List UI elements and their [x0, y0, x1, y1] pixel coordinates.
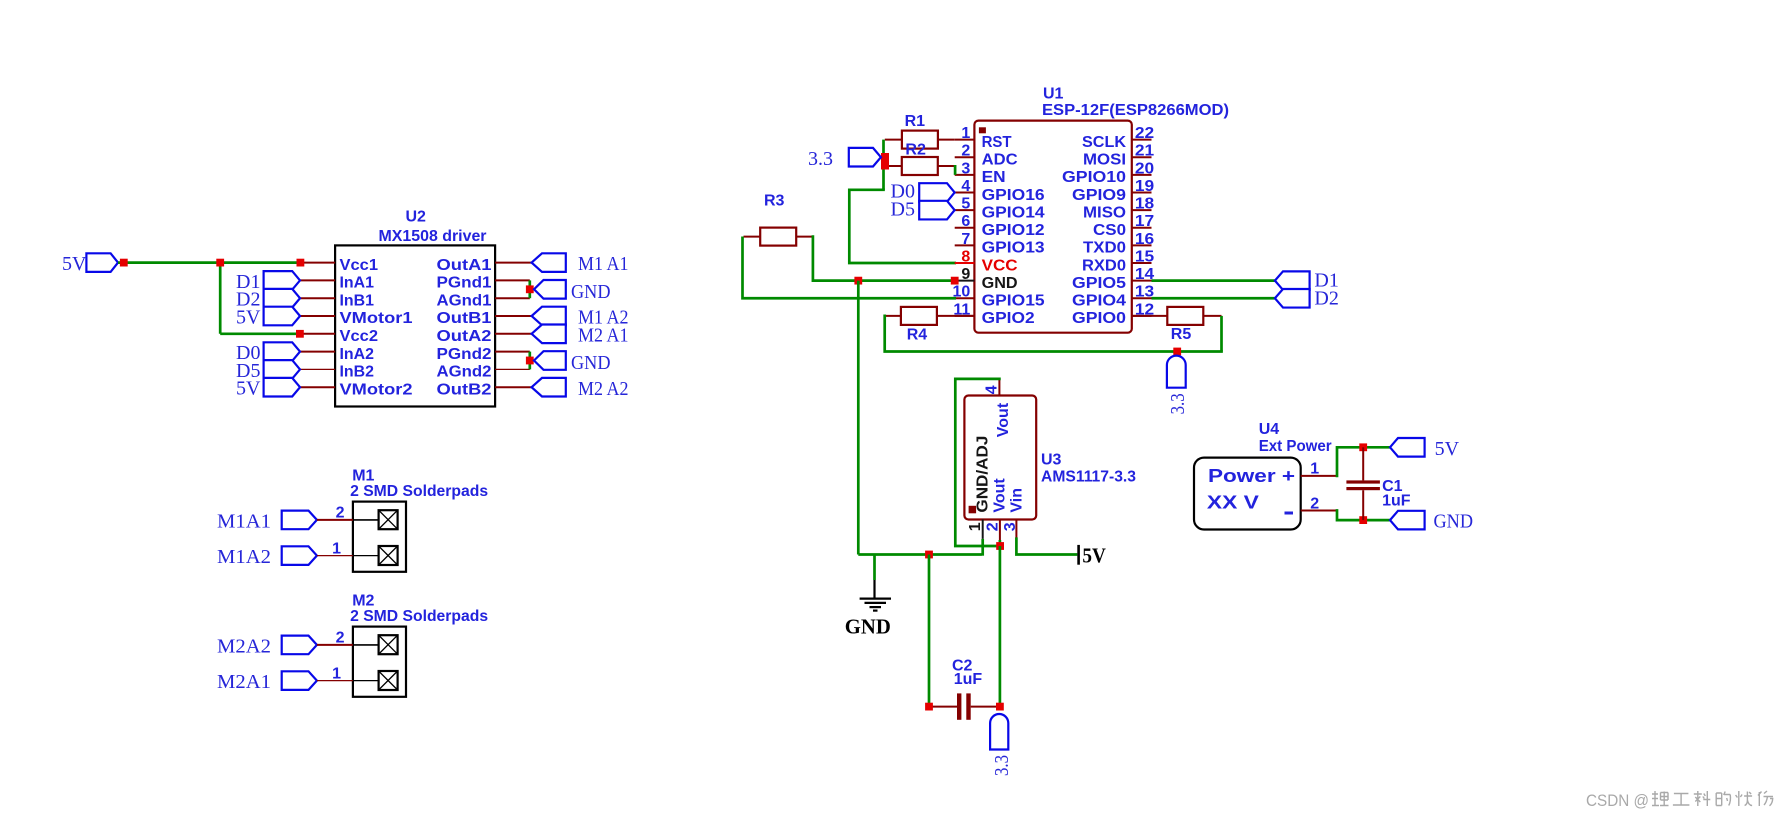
- U1 right pin stub 17: [1132, 227, 1152, 229]
- svg-text:U1: U1: [1043, 86, 1064, 103]
- wire Vout loop pin4 to pin2: [955, 379, 999, 546]
- svg-text:GPIO12: GPIO12: [982, 222, 1045, 239]
- svg-text:2: 2: [336, 505, 345, 522]
- svg-text:GND: GND: [1434, 511, 1474, 533]
- U1 left pin stub 5: [955, 209, 975, 211]
- capacitor C2 plates: [957, 693, 961, 719]
- wire inside M2 pad1: [353, 680, 379, 682]
- wire R1 left: [885, 139, 902, 141]
- wire R2 left: [887, 165, 902, 167]
- wire GND net vertical down: [857, 281, 860, 555]
- U1 right pin stub 14: [1132, 280, 1152, 282]
- svg-text:R4: R4: [907, 327, 928, 344]
- svg-text:1: 1: [961, 125, 970, 142]
- M2 pad 2 (bottom): [379, 671, 398, 690]
- svg-text:1: 1: [332, 540, 341, 557]
- U2 left pin stub row 8: [300, 386, 335, 388]
- svg-text:7: 7: [961, 231, 970, 248]
- svg-text:D5: D5: [891, 198, 915, 220]
- junction C2 right: [996, 703, 1004, 711]
- wire 3.3 net vertical at R1/R2: [882, 140, 885, 190]
- U1 left pin stub 9: [955, 280, 975, 282]
- svg-text:2 SMD Solderpads: 2 SMD Solderpads: [350, 483, 488, 500]
- svg-text:6: 6: [961, 213, 970, 230]
- U2 right pin stub row 5: [495, 333, 531, 335]
- wire GND horizontal to pin1: [858, 553, 981, 556]
- junction at Vcc1 pin: [297, 259, 305, 267]
- svg-text:3: 3: [961, 160, 970, 177]
- U1 right pin stub 15: [1132, 262, 1152, 264]
- U1 left pin stub 7: [955, 244, 975, 246]
- U1 left pin stub 1: [955, 139, 975, 141]
- U1 right pin stub 16: [1132, 244, 1152, 246]
- svg-text:R5: R5: [1171, 326, 1192, 343]
- svg-text:1: 1: [967, 522, 984, 531]
- svg-text:21: 21: [1135, 143, 1154, 160]
- net flag M2A1: [282, 671, 317, 690]
- ground symbol bars: [860, 597, 891, 599]
- net flag M2 A2: [532, 378, 566, 397]
- net flag GND (U2 upper): [534, 280, 566, 299]
- svg-text:Ext Power: Ext Power: [1259, 438, 1332, 455]
- wire pin2 down to GND: [1337, 511, 1390, 521]
- connector U4 Ext Power body: [1194, 458, 1301, 530]
- svg-text:3.3: 3.3: [1167, 393, 1189, 414]
- svg-text:Vout: Vout: [992, 478, 1009, 513]
- svg-text:M2A2: M2A2: [217, 636, 271, 658]
- svg-text:GPIO10: GPIO10: [1062, 169, 1126, 186]
- svg-text:MISO: MISO: [1083, 204, 1126, 221]
- net flag 5V at U2: [264, 307, 300, 326]
- svg-text:GPIO13: GPIO13: [982, 240, 1045, 257]
- svg-text:M1A1: M1A1: [217, 511, 271, 533]
- junction Vout/3.3 under U3: [996, 542, 1004, 550]
- wire 5V net horizontal to Vcc2: [220, 332, 300, 335]
- svg-text:GND: GND: [571, 281, 611, 303]
- svg-text:2 SMD Solderpads: 2 SMD Solderpads: [350, 608, 488, 625]
- junction C1 top: [1359, 443, 1367, 451]
- wire inside M1 pad2: [353, 519, 379, 521]
- svg-text:GPIO2: GPIO2: [982, 310, 1035, 327]
- wire pin3 to 5V probe: [1016, 539, 1076, 555]
- svg-text:ADC: ADC: [982, 152, 1018, 169]
- U2 left pin stub row 6: [300, 351, 335, 353]
- U1 right pin stub 12: [1132, 315, 1152, 317]
- junction C1 bottom: [1359, 516, 1367, 524]
- svg-text:PGnd2: PGnd2: [437, 346, 492, 363]
- wire M2A1 to M2 (thin): [317, 680, 353, 682]
- U1 left pin stub 10: [955, 297, 975, 299]
- svg-text:GPIO5: GPIO5: [1072, 275, 1126, 292]
- resistor R1: [902, 131, 938, 149]
- watermark hanzi strokes: [1652, 791, 1773, 806]
- U1 right pin stub 19: [1132, 191, 1152, 193]
- junction at Vcc2 pin: [296, 330, 304, 338]
- net flag M2A2: [282, 636, 317, 655]
- svg-text:22: 22: [1135, 125, 1154, 142]
- svg-text:M2 A2: M2 A2: [578, 378, 629, 400]
- svg-text:R1: R1: [905, 113, 926, 130]
- svg-text:3.3: 3.3: [808, 148, 833, 170]
- svg-text:Vout: Vout: [995, 402, 1012, 437]
- svg-text:M2 A1: M2 A1: [578, 324, 629, 346]
- U2 left pin stub row 4: [300, 315, 335, 317]
- U2 right pin stub row 4: [495, 315, 531, 317]
- svg-text:GPIO16: GPIO16: [982, 187, 1045, 204]
- net flag GND (U2 lower): [534, 351, 566, 370]
- net flag GND at U4: [1390, 511, 1425, 530]
- 5V probe bar: [1077, 545, 1080, 565]
- svg-text:OutB2: OutB2: [437, 381, 492, 398]
- net flag 5V (top left): [86, 253, 118, 272]
- svg-text:1uF: 1uF: [1382, 492, 1411, 509]
- wire GND PGnd2-AGnd2 vertical: [528, 352, 531, 370]
- svg-text:GND/ADJ: GND/ADJ: [975, 436, 992, 513]
- svg-text:Vcc2: Vcc2: [340, 328, 379, 345]
- svg-text:GPIO14: GPIO14: [982, 204, 1045, 221]
- svg-text:5V: 5V: [236, 306, 261, 328]
- connector M1 2 SMD Solderpads body: [353, 502, 406, 572]
- net flag D5 at U2: [264, 360, 300, 379]
- junction GND at C2 branch: [925, 551, 933, 559]
- U1 left pin stub 11: [955, 315, 975, 317]
- junction GND2: [526, 357, 534, 365]
- svg-text:M1A2: M1A2: [217, 546, 271, 568]
- svg-text:4: 4: [984, 385, 1001, 394]
- resistor R2: [902, 157, 938, 175]
- U4 pin 1 wire: [1301, 475, 1337, 477]
- wire GPIO4 to D2: [1152, 297, 1275, 300]
- wire GND PGnd1-AGnd1 vertical: [528, 280, 531, 298]
- net flag 5V at U2: [264, 378, 300, 397]
- U2 left pin stub row 2: [300, 279, 335, 281]
- U2 right pin stub row 1: [495, 262, 531, 264]
- wire C1 bottom: [1362, 490, 1364, 520]
- svg-text:OutA1: OutA1: [437, 257, 492, 274]
- U3 pin 2 stub: [999, 520, 1001, 541]
- U2 right pin stub row 3: [495, 297, 530, 299]
- svg-text:5V: 5V: [236, 378, 261, 400]
- svg-text:16: 16: [1135, 231, 1154, 248]
- wire R3 left down to GPIO15 net: [744, 236, 761, 238]
- net flag D0 at GPIO16: [919, 183, 954, 202]
- junction 3.3 under R5: [1173, 348, 1181, 356]
- net flag D1: [1275, 271, 1310, 290]
- wire R3 right down to GND net: [796, 236, 813, 238]
- svg-text:CSDN @: CSDN @: [1586, 791, 1649, 810]
- net flag 3.3 (top): [849, 148, 881, 167]
- wire R1 right to RST: [938, 139, 955, 141]
- wire pin1 up to 5V: [1337, 447, 1390, 476]
- svg-text:TXD0: TXD0: [1083, 240, 1126, 257]
- wire 3.3 down to C2: [999, 546, 1002, 707]
- net flag M1A2: [282, 546, 317, 565]
- svg-text:RXD0: RXD0: [1082, 257, 1126, 274]
- svg-text:Power +: Power +: [1208, 466, 1295, 486]
- wire GPIO5 to D1: [1152, 279, 1275, 282]
- net flag D2 at U2: [264, 289, 300, 308]
- resistor R5: [1167, 307, 1203, 325]
- svg-text:15: 15: [1135, 248, 1154, 265]
- svg-text:13: 13: [1135, 284, 1154, 301]
- svg-text:4: 4: [961, 178, 970, 195]
- svg-text:19: 19: [1135, 178, 1154, 195]
- svg-text:R3: R3: [764, 193, 785, 210]
- ground symbol stem: [873, 555, 876, 581]
- svg-text:GPIO0: GPIO0: [1072, 310, 1126, 327]
- svg-text:Vcc1: Vcc1: [340, 257, 379, 274]
- svg-text:U4: U4: [1259, 421, 1280, 438]
- junction GND at pin 9: [951, 277, 959, 285]
- svg-text:5V: 5V: [1435, 438, 1460, 460]
- U4 minus sign: [1285, 512, 1294, 515]
- svg-text:R2: R2: [905, 141, 926, 158]
- svg-text:ESP-12F(ESP8266MOD): ESP-12F(ESP8266MOD): [1042, 102, 1229, 119]
- svg-text:GPIO15: GPIO15: [982, 293, 1045, 310]
- svg-text:InB2: InB2: [340, 364, 375, 381]
- U1 left pin stub 8: [955, 262, 975, 264]
- IC U1 ESP-12F body: [974, 121, 1131, 333]
- net flag D1 at U2: [264, 271, 300, 290]
- U4 pin 2 wire: [1301, 510, 1337, 512]
- net flag 3.3 below C2: [990, 714, 1008, 750]
- svg-text:MOSI: MOSI: [1083, 152, 1126, 169]
- U1 right pin stub 21: [1132, 156, 1152, 158]
- svg-text:1uF: 1uF: [954, 671, 983, 688]
- junction bar 3.3 flag to R2: [881, 153, 889, 170]
- wire C2 left branch down: [928, 555, 931, 707]
- M2 pad 1 (top): [379, 635, 398, 654]
- net flag M2 A1: [532, 325, 566, 344]
- connector M2 2 SMD Solderpads body: [353, 627, 406, 697]
- wire R5 left to GPIO0: [1132, 315, 1168, 317]
- U2 left pin stub row 7: [300, 368, 335, 370]
- svg-text:OutA2: OutA2: [437, 328, 492, 345]
- U1 left pin stub 3: [955, 174, 975, 176]
- U3 pin 1 stub black: [982, 520, 984, 539]
- wire inside M2 pad2: [353, 644, 379, 646]
- U1 right pin stub 20: [1132, 174, 1152, 176]
- wire C2 right: [971, 706, 1000, 708]
- svg-text:InA1: InA1: [340, 275, 375, 292]
- svg-text:SCLK: SCLK: [1082, 134, 1126, 151]
- U3 pin 3 stub: [1015, 520, 1017, 539]
- svg-text:1: 1: [332, 665, 341, 682]
- wire 3.3 net to VCC pin: [849, 190, 954, 263]
- IC U2 MX1508 driver body: [335, 245, 495, 406]
- U2 right pin stub row 8: [495, 386, 531, 388]
- U1 left pin stub 6: [955, 227, 975, 229]
- svg-text:5V: 5V: [62, 253, 87, 275]
- U3 pin 4 stub: [998, 379, 1000, 396]
- wire R5 right down: [1203, 315, 1221, 317]
- svg-text:VMotor2: VMotor2: [340, 381, 413, 398]
- wire M1A2 to M1 (thin): [317, 555, 353, 557]
- svg-text:20: 20: [1135, 160, 1154, 177]
- net flag 5V at U4: [1390, 438, 1425, 457]
- capacitor C1 plates: [1346, 480, 1380, 483]
- svg-text:GPIO4: GPIO4: [1072, 293, 1126, 310]
- wire R4 left loop to R5: [885, 315, 901, 317]
- wire pin2 to junction: [999, 540, 1002, 546]
- svg-text:MX1508 driver: MX1508 driver: [379, 228, 487, 245]
- svg-text:D2: D2: [1314, 287, 1338, 309]
- U1 left pin stub 4: [955, 191, 975, 193]
- U2 left pin stub row 3: [300, 297, 335, 299]
- resistor R3: [760, 228, 796, 246]
- svg-text:GND: GND: [571, 352, 611, 374]
- net flag D5 at GPIO14: [919, 201, 954, 220]
- svg-text:OutB1: OutB1: [437, 310, 492, 327]
- U1 right pin stub 18: [1132, 209, 1152, 211]
- VCC pin stub red: [955, 262, 975, 264]
- net flag 3.3 under R5: [1167, 356, 1186, 388]
- svg-text:AMS1117-3.3: AMS1117-3.3: [1041, 469, 1136, 486]
- net flag D0 at U2: [264, 342, 300, 361]
- U2 right pin stub row 6: [495, 351, 530, 353]
- junction C2 left: [925, 703, 933, 711]
- svg-text:17: 17: [1135, 213, 1154, 230]
- svg-text:RST: RST: [982, 134, 1012, 151]
- svg-text:Vin: Vin: [1009, 488, 1026, 513]
- svg-text:AGnd1: AGnd1: [437, 292, 492, 309]
- svg-text:U3: U3: [1041, 452, 1062, 469]
- U1 pin1 marker: [979, 127, 986, 133]
- junction on 5V branch: [216, 259, 224, 267]
- wire M1A1 to M1: [317, 519, 353, 521]
- svg-text:2: 2: [336, 630, 345, 647]
- net flag M1A1: [282, 511, 317, 530]
- wire C1 top: [1362, 447, 1364, 480]
- wire R4 right to GPIO2: [937, 315, 975, 317]
- U2 right pin stub row 2: [495, 279, 530, 281]
- svg-text:AGnd2: AGnd2: [437, 364, 492, 381]
- wire 5V net vertical branch: [219, 263, 222, 334]
- net flag D2: [1275, 289, 1310, 308]
- svg-text:M2A1: M2A1: [217, 671, 271, 693]
- net flag M1 A2: [532, 307, 566, 326]
- U3 pin1 marker: [969, 506, 977, 514]
- wire pin1 down green: [981, 539, 984, 556]
- svg-text:14: 14: [1135, 266, 1154, 283]
- svg-text:XX V: XX V: [1207, 493, 1259, 513]
- U1 right pin stub 13: [1132, 297, 1152, 299]
- svg-text:CS0: CS0: [1093, 222, 1126, 239]
- M1 pad 1 (top): [379, 510, 398, 529]
- svg-text:InB1: InB1: [340, 292, 375, 309]
- svg-text:5: 5: [961, 196, 970, 213]
- svg-text:GPIO9: GPIO9: [1072, 187, 1126, 204]
- svg-text:VCC: VCC: [982, 257, 1018, 274]
- svg-text:3.3: 3.3: [991, 755, 1013, 776]
- wire M2A2 to M2: [317, 644, 353, 646]
- svg-text:VMotor1: VMotor1: [340, 310, 413, 327]
- svg-text:U2: U2: [406, 209, 427, 226]
- svg-text:M1 A1: M1 A1: [578, 253, 629, 275]
- M1 pad 2 (bottom): [379, 546, 398, 565]
- svg-text:18: 18: [1135, 196, 1154, 213]
- wire R2 right jog to EN: [938, 165, 955, 167]
- junction GND1: [526, 285, 534, 293]
- regulator U3 AMS1117-3.3 body: [964, 396, 1036, 520]
- svg-text:GND: GND: [982, 275, 1018, 292]
- U1 left pin stub 2: [955, 156, 975, 158]
- junction on 5V at flag: [120, 259, 128, 267]
- junction GND net near U1: [854, 277, 862, 285]
- net flag M1 A1: [532, 253, 566, 272]
- U2 left pin stub row 5: [300, 333, 335, 335]
- svg-text:PGnd1: PGnd1: [437, 275, 492, 292]
- svg-text:EN: EN: [982, 169, 1006, 186]
- svg-text:2: 2: [961, 143, 970, 160]
- U1 right pin stub 22: [1132, 139, 1152, 141]
- resistor R4: [901, 307, 937, 325]
- svg-text:9: 9: [961, 266, 970, 283]
- U2 left pin stub row 1: [300, 262, 335, 264]
- wire inside M1 pad1: [353, 555, 379, 557]
- wire 5V net horizontal to Vcc1: [118, 261, 300, 264]
- svg-text:InA2: InA2: [340, 346, 375, 363]
- U2 right pin stub row 7: [495, 368, 530, 370]
- wire C2 left: [929, 706, 957, 708]
- svg-text:GND: GND: [845, 615, 891, 639]
- svg-text:5V: 5V: [1082, 544, 1106, 568]
